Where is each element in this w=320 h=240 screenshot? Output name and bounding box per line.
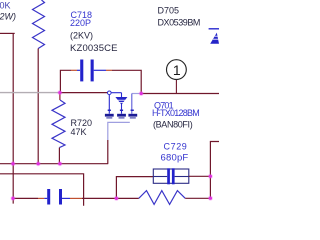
svg-text:DX0539BM: DX0539BM bbox=[158, 17, 200, 27]
transistor Q701 tick plates bbox=[108, 109, 134, 111]
wire top-right net bbox=[141, 93, 219, 95]
wire mid horizontal net bbox=[0, 163, 108, 165]
wire C729 right lead bbox=[189, 175, 211, 177]
svg-text:1: 1 bbox=[173, 62, 181, 78]
transistor Q701 gate circle bbox=[108, 91, 112, 95]
wire orange transition bbox=[38, 197, 44, 199]
resistor R720 stub top bbox=[59, 93, 61, 100]
wire bottom resistor lead left bbox=[116, 197, 138, 199]
node stub from circle 1 bbox=[175, 80, 177, 94]
wire C718 left branch bbox=[60, 70, 71, 92]
wire right vertical bbox=[210, 142, 219, 199]
wire to bottom node bbox=[82, 197, 116, 199]
wire gray net left bbox=[0, 92, 60, 94]
transistor Q701 bottom bars bbox=[105, 114, 114, 117]
wire orange transition right of C718 bbox=[106, 69, 112, 71]
transistor Q701 leg 2 bbox=[121, 93, 123, 114]
capacitor bottom-left bbox=[44, 197, 47, 199]
wire gate net bbox=[60, 92, 108, 94]
wire orange transition right bbox=[70, 197, 82, 199]
junction dots bbox=[57, 90, 62, 95]
resistor bottom-right bbox=[139, 191, 185, 205]
wire substrate down maroon bbox=[107, 140, 109, 164]
wire left vertical bus bbox=[12, 33, 14, 203]
resistor R720 bbox=[52, 100, 65, 148]
wire resistor lead down bbox=[37, 49, 39, 164]
wire bottom RC left branch bbox=[116, 177, 153, 199]
transistor Q701 top link bbox=[111, 92, 121, 94]
wire orange transition left of C718 bbox=[71, 69, 77, 71]
capacitor C718 bbox=[77, 69, 80, 71]
wire C718 to node bbox=[112, 70, 141, 93]
svg-text:47K: 47K bbox=[71, 127, 87, 137]
wire lavender substrate bbox=[108, 122, 130, 140]
svg-text:C729: C729 bbox=[164, 142, 188, 152]
wire top-left horizontal bbox=[0, 32, 15, 34]
svg-text:0K: 0K bbox=[0, 1, 11, 11]
transistor Q701 triangle bbox=[115, 97, 127, 105]
resistor R7xx (top, clipped) bbox=[33, 0, 45, 49]
wire second horizontal net bbox=[0, 174, 84, 206]
wire bottom resistor lead right bbox=[185, 197, 210, 199]
svg-text:680pF: 680pF bbox=[161, 152, 189, 163]
wire lavender drain link bbox=[132, 93, 141, 95]
resistor R720 stub bottom bbox=[58, 148, 60, 164]
svg-text:D705: D705 bbox=[158, 5, 180, 15]
svg-text:H-TX0128BM: H-TX0128BM bbox=[152, 108, 199, 118]
wire bottom-left to cap bbox=[13, 197, 38, 199]
svg-text:KZ0035CE: KZ0035CE bbox=[70, 43, 118, 54]
transistor Q701 leg 3 bbox=[131, 94, 133, 114]
svg-text:(2KV): (2KV) bbox=[70, 31, 93, 41]
diode D705 triangle bbox=[210, 33, 219, 44]
diode D705 cathode bar bbox=[209, 28, 219, 30]
svg-text:220P: 220P bbox=[70, 18, 91, 28]
svg-text:2W): 2W) bbox=[0, 11, 16, 21]
circle ref 1 bbox=[167, 60, 187, 80]
svg-text:(BAN80FI): (BAN80FI) bbox=[153, 120, 193, 130]
capacitor C729 box bbox=[153, 169, 189, 183]
transistor Q701 leg 1 bbox=[108, 95, 110, 114]
